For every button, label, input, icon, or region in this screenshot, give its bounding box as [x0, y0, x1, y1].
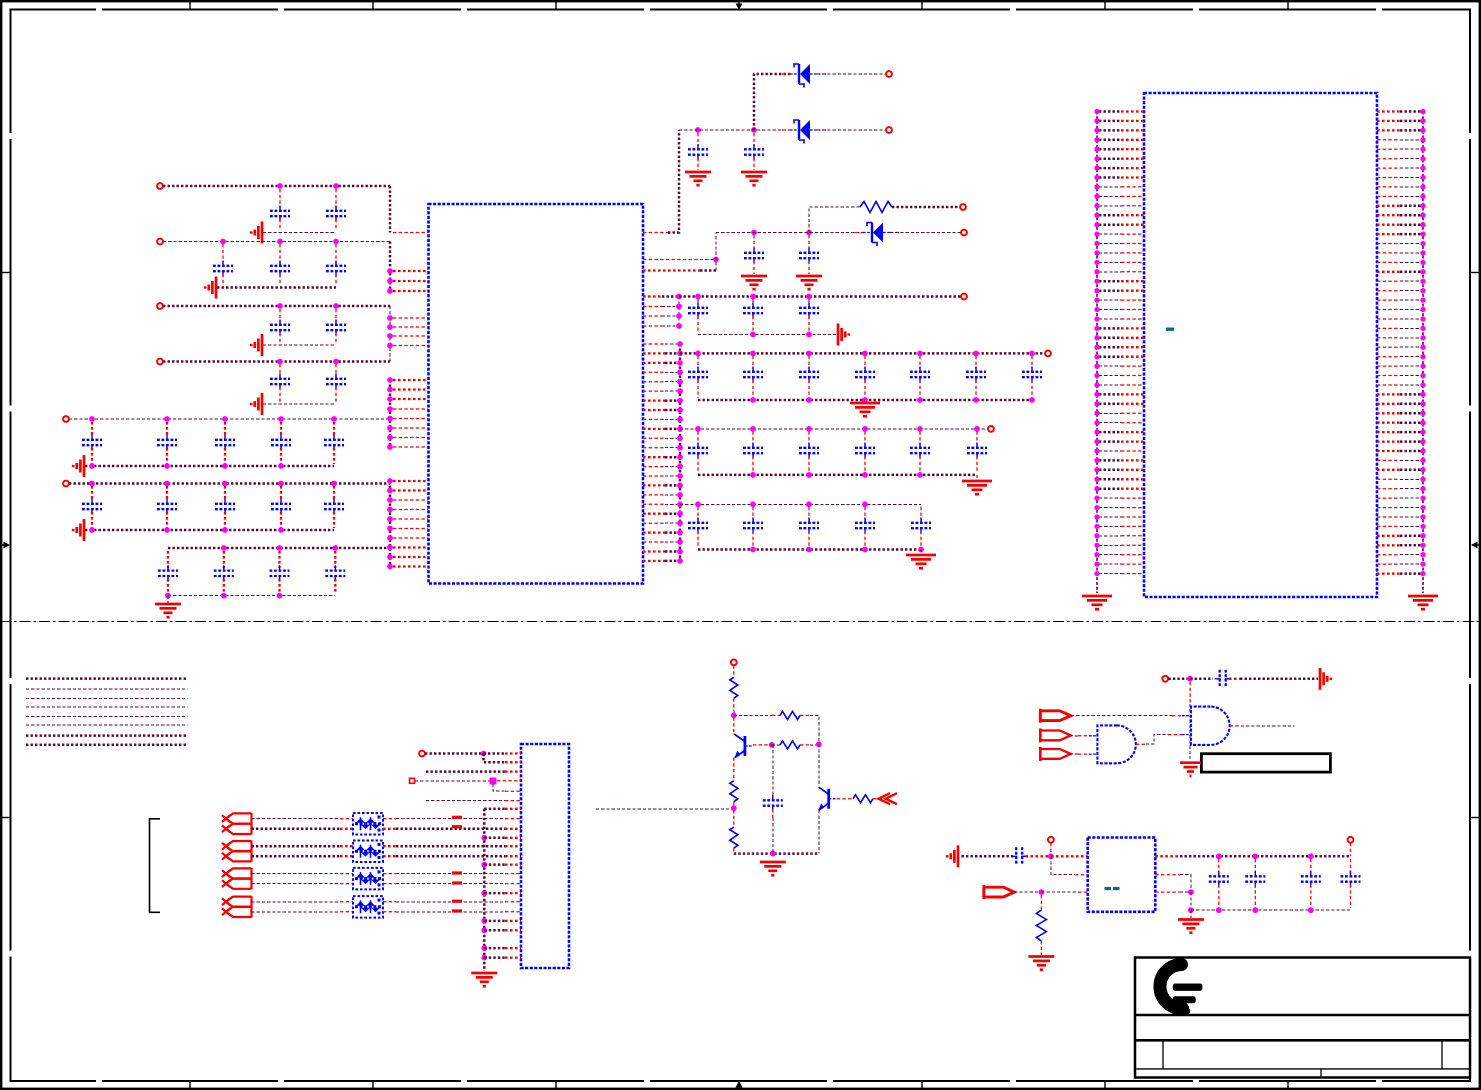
terminal VDD A: [157, 183, 163, 189]
capacitor C46: [743, 518, 763, 534]
node: [862, 547, 868, 553]
capacitor C52: [1209, 871, 1229, 887]
pin stub: [505, 800, 521, 802]
pin stub: [643, 447, 665, 449]
cap lead: [280, 512, 282, 528]
node E: [278, 416, 284, 422]
resistor R2: [730, 677, 738, 698]
wire gate out: [1241, 725, 1294, 727]
cap lead: [919, 380, 921, 398]
wire: [415, 780, 493, 782]
capacitor C55: [1341, 871, 1361, 887]
ground U2 right: [1408, 596, 1438, 609]
cap lead: [280, 422, 282, 437]
input port 1: [1040, 709, 1071, 723]
node F: [222, 481, 228, 487]
pin stub: [393, 499, 428, 501]
terminal sq: [410, 778, 415, 783]
node: [1216, 907, 1222, 913]
wire: [700, 269, 716, 272]
wire pair b: [252, 883, 341, 885]
resistor R7: [853, 795, 873, 803]
node: [481, 927, 487, 933]
pin stub: [393, 408, 428, 410]
wire: [665, 475, 677, 477]
node tap: [490, 778, 497, 785]
capacitor C42: [855, 443, 875, 459]
ground row G: [155, 604, 181, 617]
node: [713, 257, 719, 263]
terminal VDD C: [157, 303, 163, 309]
lead: [733, 666, 735, 678]
wire b to J1: [396, 855, 505, 858]
node: [1252, 907, 1258, 913]
wire D3 row: [716, 232, 863, 234]
capacitor C49: [763, 795, 783, 811]
node G: [332, 545, 338, 551]
ground sideways: [947, 845, 958, 867]
cap lead: [919, 431, 921, 445]
wire row G rail: [168, 547, 390, 550]
wire: [962, 855, 1014, 858]
lead: [733, 848, 735, 853]
ground J1: [471, 973, 497, 986]
node: [695, 501, 701, 507]
stub: [1050, 843, 1052, 853]
pin stub: [393, 398, 428, 400]
wire gate link: [1146, 735, 1168, 745]
wire: [665, 371, 677, 373]
wire red b: [340, 883, 353, 885]
AND gate U8: [1191, 707, 1230, 745]
node: [806, 472, 812, 478]
wire: [493, 784, 505, 791]
wire: [1051, 856, 1075, 874]
cap lead: [919, 456, 921, 473]
pin stub: [643, 232, 668, 234]
wire: [662, 306, 679, 308]
node F: [278, 481, 284, 487]
capacitor C17: [215, 499, 235, 515]
node: [677, 483, 683, 489]
pin stub: [393, 489, 428, 491]
cap lead: [333, 422, 335, 437]
node: [695, 127, 701, 133]
cap lead: [224, 512, 226, 528]
node: [387, 377, 393, 383]
wire: [700, 259, 716, 261]
cap lead: [919, 356, 921, 369]
node: [750, 426, 756, 432]
pin stub: [643, 428, 665, 430]
U2 right pins: [1377, 109, 1426, 576]
node: [806, 426, 812, 432]
node: [750, 501, 756, 507]
wire row E gnd rail: [85, 465, 334, 468]
lead: [1168, 734, 1182, 736]
pin stub: [643, 541, 665, 543]
ground: [685, 172, 711, 185]
lead: [733, 810, 735, 827]
node: [918, 547, 924, 553]
node: [917, 351, 923, 357]
wire red a: [340, 901, 353, 903]
lead: [1040, 895, 1042, 910]
wire: [772, 744, 780, 746]
cap lead: [334, 579, 336, 594]
cap lead: [335, 333, 337, 343]
pin stub: [505, 956, 521, 958]
wire: [665, 447, 677, 449]
node: [770, 851, 776, 857]
zener D3: [855, 223, 901, 247]
pin stub: [643, 522, 665, 524]
pin stub: [393, 565, 428, 567]
cap lead: [864, 431, 866, 445]
node: [676, 323, 682, 329]
node: [677, 351, 683, 357]
wire row F rail: [69, 482, 390, 485]
pin stub: [393, 509, 428, 511]
gate pin: [1182, 734, 1191, 736]
wire: [484, 808, 505, 811]
node B: [220, 239, 226, 245]
lead: [772, 714, 780, 716]
capacitor C2: [326, 206, 346, 222]
cap lead: [335, 189, 337, 208]
node: [387, 425, 393, 431]
wire: [665, 428, 677, 431]
text mark: [1105, 887, 1112, 890]
wire a to J1: [396, 901, 505, 903]
wire: [1071, 715, 1172, 717]
pin stub: [643, 306, 662, 308]
cap lead: [278, 551, 280, 568]
cap lead: [697, 158, 699, 170]
capacitor C34: [799, 367, 819, 383]
node: [731, 713, 737, 719]
capacitor C27: [744, 248, 764, 264]
terminal VDD B: [157, 239, 163, 245]
cap lead: [864, 507, 866, 520]
pin stub: [393, 317, 428, 319]
pin stub: [393, 379, 428, 381]
terminal: [988, 426, 994, 432]
cap lead: [224, 448, 226, 464]
wire: [426, 770, 505, 773]
wire: [1240, 678, 1318, 681]
cap lead: [167, 579, 169, 594]
node E: [164, 416, 170, 422]
ground: [741, 276, 767, 289]
ground Q: [760, 862, 786, 875]
wire D1 row: [754, 74, 790, 130]
node: [387, 406, 393, 412]
wire row B gnd rail: [217, 286, 336, 289]
cap lead: [1254, 885, 1256, 909]
node F: [89, 481, 95, 487]
cap lead: [697, 531, 699, 548]
net labels: [452, 816, 462, 913]
wire: [665, 494, 677, 496]
wire riser: [715, 233, 717, 271]
capacitor C23: [325, 565, 345, 581]
cap lead: [864, 380, 866, 398]
capacitor C38: [1022, 367, 1042, 383]
node: [677, 407, 683, 413]
wire: [665, 541, 677, 543]
cap lead: [752, 507, 754, 520]
node: [1308, 907, 1314, 913]
wire bus line: [26, 688, 188, 690]
capacitor C36: [910, 367, 930, 383]
lead: [1230, 725, 1241, 727]
pin stub: [393, 556, 428, 558]
pin stub: [393, 388, 428, 390]
terminal: [886, 71, 892, 77]
wire pair a: [252, 818, 341, 820]
wire red b: [340, 828, 353, 830]
pin stub: [505, 873, 521, 875]
capacitor C9: [326, 374, 346, 390]
wire gnd rail: [1191, 909, 1351, 911]
input port 4: [984, 885, 1015, 899]
node: [917, 397, 923, 403]
node: [695, 351, 701, 357]
pin stub: [1051, 855, 1088, 857]
terminal: [731, 660, 737, 666]
ground row B: [205, 277, 216, 299]
node: [676, 313, 682, 319]
pin stub: [505, 929, 521, 931]
wire bus right: [679, 344, 682, 561]
wire: [484, 752, 506, 755]
wire: [1168, 678, 1190, 681]
wire red b: [383, 855, 396, 857]
pin stub: [497, 780, 521, 782]
wire rail4 gnd: [698, 548, 921, 551]
ground R8: [1028, 957, 1054, 970]
pin stub: [393, 446, 428, 448]
pin stub: [1078, 891, 1088, 893]
capacitor C51: [1011, 847, 1027, 865]
pin stub: [643, 484, 665, 486]
lead: [733, 758, 735, 781]
lead: [1229, 678, 1240, 680]
pin stub: [505, 845, 521, 847]
IC U10: [1088, 838, 1156, 912]
wire: [484, 863, 505, 866]
cap lead: [753, 158, 755, 170]
node: [387, 435, 393, 441]
pin stub: [393, 528, 428, 530]
wire b to J1: [396, 828, 505, 831]
capacitor C47: [799, 518, 819, 534]
cap lead: [224, 422, 226, 437]
wire: [426, 800, 505, 802]
capacitor C15: [82, 499, 102, 515]
node: [816, 741, 822, 747]
ESD array U3: [353, 813, 383, 835]
cap lead: [1031, 380, 1033, 398]
wire: [810, 715, 819, 742]
cap lead: [333, 448, 335, 464]
node: [750, 351, 756, 357]
wire red b: [383, 883, 396, 885]
node: [677, 501, 683, 507]
node: [89, 527, 95, 533]
capacitor C40: [743, 443, 763, 459]
node: [387, 315, 393, 321]
node: [222, 463, 228, 469]
pin stub: [643, 381, 665, 383]
cap lead: [752, 316, 754, 332]
pin stub: [393, 437, 428, 439]
ground row A: [251, 222, 262, 244]
wire: [1069, 735, 1078, 737]
node: [1252, 853, 1258, 859]
IC U1: [429, 204, 644, 584]
node C1: [277, 303, 283, 309]
wire: [665, 343, 677, 345]
pin stub: [505, 920, 521, 922]
text mark: [1166, 328, 1174, 331]
wire: [484, 920, 505, 923]
wire pair b: [252, 828, 341, 831]
capacitor C19: [324, 499, 344, 515]
wire pair a: [252, 845, 341, 848]
node bus B: [387, 268, 393, 274]
cap lead: [280, 486, 282, 501]
node: [806, 294, 812, 300]
wire: [1041, 891, 1078, 893]
IC U2: [1144, 93, 1377, 597]
cap lead: [976, 456, 978, 473]
terminal VDD D: [157, 359, 163, 365]
wire: [665, 560, 677, 563]
node: [481, 955, 487, 961]
terminal: [419, 751, 425, 757]
ESD array U4: [353, 841, 383, 863]
node: [677, 549, 683, 555]
gate pin: [1089, 753, 1097, 755]
cap lead: [697, 380, 699, 398]
node: [973, 351, 979, 357]
lead: [772, 809, 774, 818]
wire red b: [383, 911, 396, 913]
cap lead: [91, 448, 93, 464]
wire: [665, 522, 677, 524]
wire row B rail: [163, 241, 390, 243]
wire pair a: [252, 873, 341, 875]
node: [677, 473, 683, 479]
capacitor C45: [688, 518, 708, 534]
node: [974, 426, 980, 432]
cap lead: [864, 531, 866, 548]
lead: [733, 802, 735, 806]
node F: [331, 481, 337, 487]
ground rail3: [962, 481, 992, 494]
wire row D gnd rail: [263, 403, 336, 405]
cap lead: [279, 219, 281, 230]
AND gate U9: [1097, 725, 1135, 763]
capacitor C43: [910, 443, 930, 459]
node bus B: [387, 288, 393, 294]
pin stub: [393, 280, 428, 282]
pin stub: [643, 513, 665, 515]
node: [973, 397, 979, 403]
cap lead: [697, 456, 699, 473]
cap lead: [223, 551, 225, 568]
node: [751, 230, 757, 236]
wire bus G4: [389, 380, 392, 447]
node: [89, 463, 95, 469]
cap lead: [167, 551, 169, 568]
wire: [665, 456, 677, 459]
wire bus line: [26, 706, 188, 708]
pin stub: [1075, 874, 1088, 876]
node: [750, 397, 756, 403]
wire row D rail: [163, 360, 390, 363]
lead: [733, 698, 735, 711]
node: [1039, 889, 1045, 895]
capacitor C14: [324, 435, 344, 451]
pin stub: [505, 855, 521, 857]
cap lead: [752, 531, 754, 548]
cap lead: [808, 235, 810, 249]
wire R1 out: [892, 206, 961, 209]
wire row G gnd rail: [168, 595, 335, 597]
label box: [1201, 754, 1330, 772]
cap lead: [752, 299, 754, 305]
pin stub: [643, 475, 665, 477]
cap lead: [279, 189, 281, 208]
node: [917, 472, 923, 478]
capacitor C30: [743, 303, 763, 319]
capacitor C5: [326, 261, 346, 277]
wire: [425, 752, 484, 755]
cap lead: [1254, 859, 1256, 874]
wire rail1 gnd: [698, 334, 836, 336]
wire: [484, 956, 505, 959]
terminal: [961, 230, 967, 236]
wire: [665, 399, 677, 402]
capacitor C25: [688, 144, 708, 160]
lead: [800, 714, 810, 716]
company logo: [1160, 965, 1202, 1015]
wire: [1190, 892, 1192, 910]
wire: [484, 754, 506, 763]
pin stub: [643, 550, 665, 552]
cap lead: [808, 531, 810, 548]
wire row A rail: [163, 185, 390, 188]
wire: [484, 947, 505, 950]
node: [677, 511, 683, 517]
capacitor C48: [855, 518, 875, 534]
node: [165, 593, 171, 599]
lead: [733, 718, 735, 734]
node: [481, 890, 487, 896]
cap lead: [752, 431, 754, 445]
node: [387, 545, 393, 551]
cap lead: [697, 133, 699, 146]
wire rail3: [680, 428, 988, 430]
wire red b: [340, 911, 353, 913]
wire: [1014, 891, 1041, 893]
cap lead: [975, 356, 977, 369]
wire red a: [383, 901, 396, 903]
node: [278, 463, 284, 469]
